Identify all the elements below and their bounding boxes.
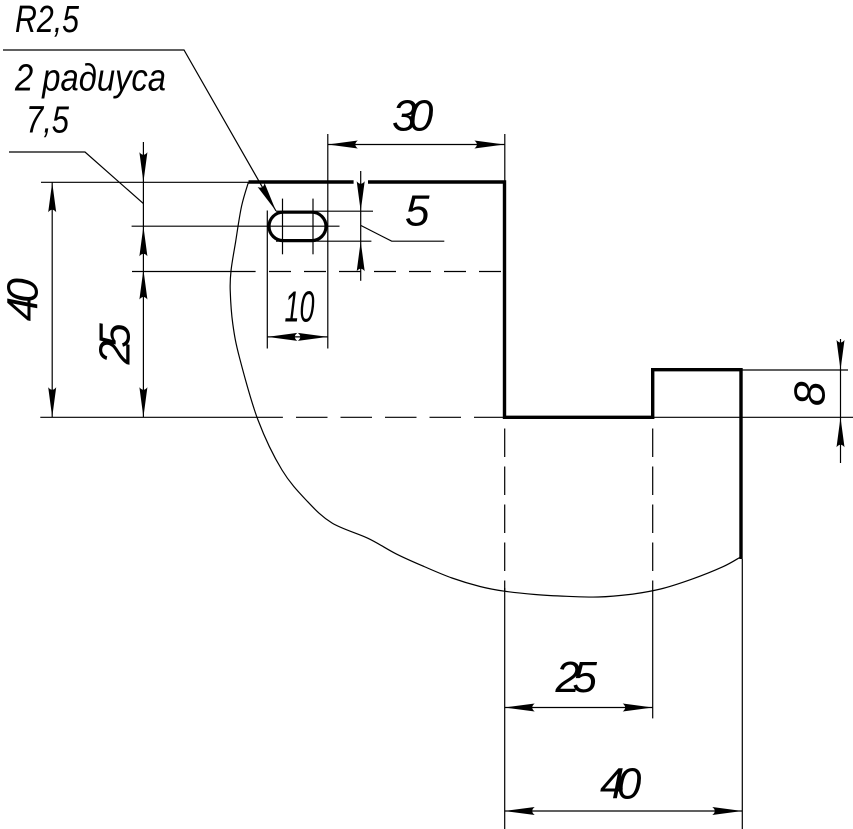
svg-text:40: 40 [600,760,642,809]
leader for 5 [361,225,445,241]
svg-text:R2,5: R2,5 [15,0,80,41]
slot bottom extension [276,240,371,242]
svg-text:7,5: 7,5 [26,100,70,142]
extension line 30 right [504,134,506,182]
part outline [249,182,742,559]
slot (oblong hole) [269,212,326,240]
extension line x=742.3 [741,559,743,829]
svg-text:25: 25 [91,323,140,366]
slot radius center line left [282,199,284,255]
slot radius center line right [312,199,314,255]
svg-text:30: 30 [392,91,434,140]
extension line x=267.3 (10 left) [266,211,268,349]
dimension line 30 [328,144,505,146]
dimension line 40 left [51,182,53,417]
extension line 8 top [743,369,849,371]
extension line y=417.3 solid left [40,416,283,418]
svg-text:25: 25 [555,653,598,702]
dimension line 5 vertical [360,171,362,281]
slot top extension [276,210,373,212]
hidden line y=271.5 dashed [269,271,505,273]
svg-text:5: 5 [405,187,430,236]
hidden line y=417.3 dashed [296,416,505,418]
hidden line x=504.7 dashed [504,419,506,591]
extension line y=417.3 right [653,416,853,418]
dimension line 25 bottom [505,707,653,709]
dimension line 40 bottom [505,810,743,812]
gap in top edge at 5-dim line [354,180,368,185]
svg-text:2 радиуса: 2 радиуса [14,58,166,100]
extension line y=271.5 solid [132,271,256,273]
leader R2,5 [3,50,276,211]
extension line x=652.7 [652,591,654,718]
dimension line 8 [840,339,842,463]
extension line slot centerline y=226 [132,225,340,227]
svg-text:40: 40 [0,278,48,322]
leader 7,5 [9,152,143,204]
svg-text:10: 10 [285,282,315,331]
extension line x=327.8 (30 left / 10 right) [327,134,329,349]
dimension line 25/7.5 left [142,142,144,417]
hidden line x=652.7 dashed [652,419,654,591]
extension line x=504.7 [504,588,506,829]
construction arc [230,182,741,597]
extension line top-left [41,181,249,183]
svg-text:8: 8 [786,381,835,406]
dimension line 10 [267,336,328,338]
